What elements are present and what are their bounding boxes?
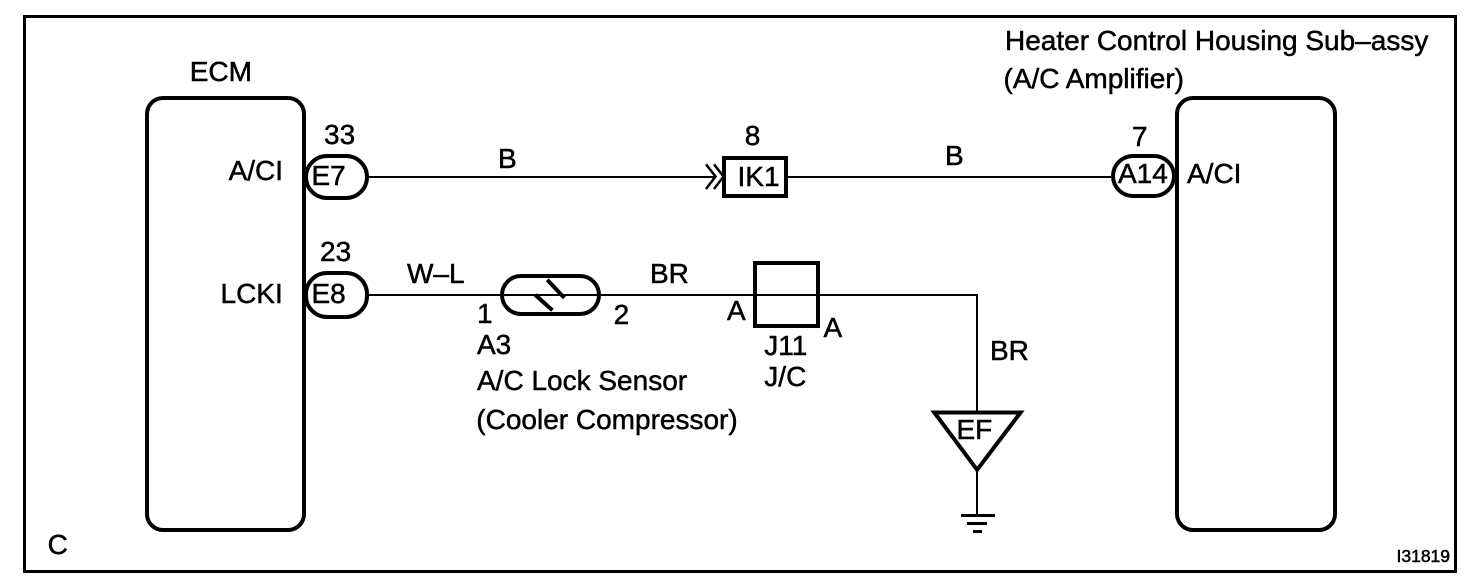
connector A14 [1111, 154, 1176, 198]
terminal label A/CI (amplifier) [1187, 160, 1241, 188]
label Heater Control Housing Sub-assy [1005, 27, 1428, 55]
junction connector J11 box [753, 261, 820, 328]
wire E8 to junction J11 corner [368, 294, 978, 296]
connector label E8 [312, 280, 346, 308]
label (A/C Amplifier) [1004, 65, 1184, 93]
chevron junction marker [702, 162, 728, 192]
label ECM [190, 58, 252, 86]
wire color label B (right) [945, 142, 964, 170]
connector IK1 box [722, 156, 788, 198]
wire IK1 to A14 [788, 176, 1111, 178]
pin number 33 [324, 121, 355, 149]
ground label EF [957, 416, 993, 444]
label J11 [764, 332, 807, 360]
A/C lock sensor A3 capsule [500, 274, 601, 316]
A/C amplifier box [1175, 96, 1337, 532]
wire E7 to IK1 [368, 176, 715, 178]
ground triangle EF [930, 408, 1025, 474]
ECM box [145, 96, 306, 532]
wire color label W-L [407, 260, 465, 288]
wire color label BR (upper) [650, 260, 689, 288]
index letter C [48, 531, 68, 559]
wire color label B (left) [498, 145, 517, 173]
pin number 8 [745, 122, 761, 150]
pin number 2 [614, 301, 630, 329]
connector E7 [304, 154, 369, 201]
pin label A (right) [824, 314, 843, 342]
pin number 23 [320, 238, 351, 266]
connector label E7 [312, 162, 346, 190]
ground bar 1 [961, 514, 995, 518]
pin number 7 [1132, 123, 1148, 151]
connector label IK1 [738, 163, 780, 191]
sensor diagonal marks [530, 275, 570, 315]
connector label A14 [1118, 160, 1168, 188]
label A3 [477, 331, 511, 359]
label A/C Lock Sensor [477, 367, 687, 395]
terminal label A/CI (ECM) [229, 157, 283, 185]
ground bar 3 [973, 530, 983, 533]
wire color label BR (lower) [990, 337, 1029, 365]
terminal label LCKI [221, 280, 283, 308]
connector E8 [304, 271, 369, 318]
figure number I31819 [1397, 548, 1451, 566]
label (Cooler Compressor) [476, 406, 737, 434]
label J/C [764, 363, 806, 391]
pin label A (left) [727, 297, 746, 325]
wire vertical down to EF [976, 294, 978, 414]
pin number 1 [477, 300, 493, 328]
ground stem wire [976, 468, 978, 514]
ground bar 2 [967, 522, 988, 525]
